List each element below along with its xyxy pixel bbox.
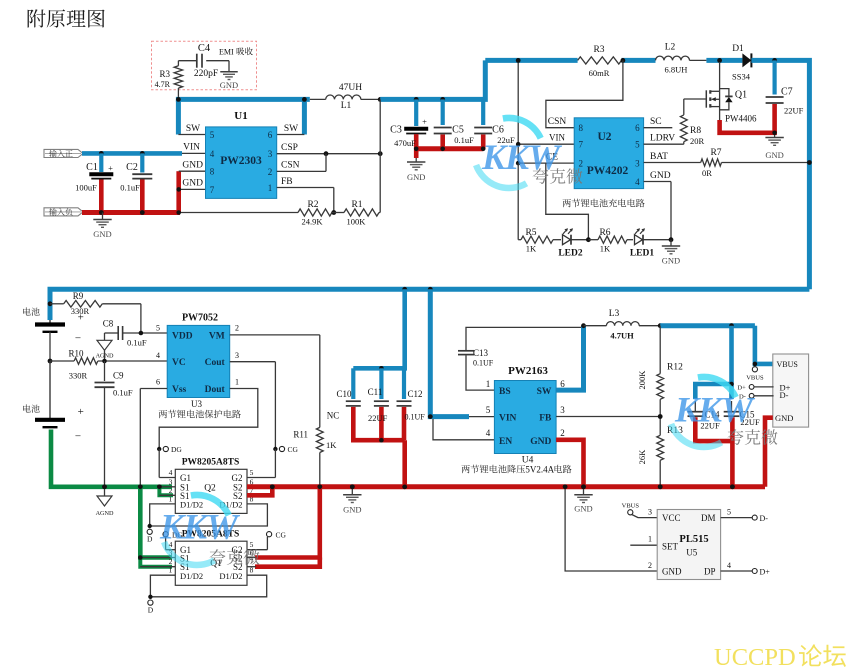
svg-text:−: −: [75, 431, 81, 443]
svg-text:R1: R1: [351, 200, 362, 210]
wire U5 GND: [565, 487, 657, 571]
svg-text:C7: C7: [781, 87, 793, 98]
ground main GND: [350, 484, 355, 489]
svg-text:5: 5: [727, 508, 731, 517]
svg-text:FB: FB: [539, 414, 552, 424]
wire CSN: [277, 170, 326, 172]
capacitor C9 0.1uF: [104, 361, 106, 381]
svg-text:1: 1: [268, 183, 273, 193]
svg-text:6: 6: [268, 130, 273, 140]
resistor R11 1K: [316, 427, 323, 452]
svg-text:SS34: SS34: [732, 72, 751, 82]
node R11 bus: [317, 484, 322, 489]
svg-text:220pF: 220pF: [194, 69, 218, 79]
svg-text:PW2163: PW2163: [508, 365, 548, 377]
svg-text:CSN: CSN: [548, 117, 567, 127]
node VIN-C2: [140, 151, 145, 156]
ground input: [102, 213, 104, 220]
wire U2 LDRV: [644, 143, 684, 145]
svg-text:47UH: 47UH: [339, 83, 362, 93]
svg-text:VBUS: VBUS: [622, 503, 640, 510]
svg-text:R2: R2: [307, 200, 318, 210]
node DG: [157, 447, 161, 451]
battery BT1: [49, 320, 51, 324]
wire green to Q1: [140, 487, 172, 558]
wire green to Q2 S1b: [159, 487, 173, 496]
node Q1 CG: [267, 532, 272, 537]
wire Q2 D loop: [150, 504, 268, 526]
wire DG to Q2 G1: [158, 449, 160, 478]
wire U5 VCC: [632, 515, 657, 518]
svg-text:VCC: VCC: [662, 513, 681, 523]
ground AGND1: [104, 333, 106, 340]
chip U5 PL515: [657, 510, 720, 580]
wire L2-D1 blue: [706, 58, 742, 63]
wire U4 FB: [556, 416, 660, 418]
svg-text:1K: 1K: [526, 244, 537, 254]
svg-text:3: 3: [648, 508, 652, 517]
svg-text:Cout: Cout: [205, 358, 226, 368]
inductor L1 47UH: [310, 98, 326, 100]
svg-text:C8: C8: [103, 319, 114, 329]
connector 输入负: [44, 208, 83, 216]
svg-text:+: +: [108, 163, 113, 173]
wire Q2 S2a red: [247, 484, 765, 489]
svg-text:PW4202: PW4202: [587, 165, 629, 177]
resistor R9 330R: [50, 303, 64, 305]
svg-text:GND: GND: [182, 179, 203, 189]
node C12 bus: [402, 484, 407, 489]
svg-text:3: 3: [268, 149, 273, 159]
node battery+ R9: [48, 301, 53, 306]
wire input negative red bus: [82, 210, 180, 215]
svg-text:C1: C1: [86, 162, 98, 173]
svg-text:VDD: VDD: [172, 332, 193, 342]
svg-text:D1: D1: [732, 44, 744, 54]
wire SW right vertical: [302, 99, 307, 134]
wire L1 to C6 blue bus: [380, 60, 485, 99]
svg-text:R9: R9: [73, 291, 84, 301]
wire U4 SW blue: [556, 326, 583, 390]
svg-text:D-: D-: [780, 390, 789, 400]
svg-text:FB: FB: [281, 177, 293, 187]
wire FB: [277, 187, 334, 189]
resistor R3 4.7R: [177, 61, 179, 66]
svg-text:8: 8: [210, 167, 215, 177]
svg-text:C13: C13: [473, 348, 489, 358]
capacitor C8 0.1uF: [105, 332, 119, 334]
svg-text:D+: D+: [760, 568, 771, 577]
svg-text:C3: C3: [390, 125, 402, 136]
svg-text:GND: GND: [407, 172, 425, 182]
node R9-VDD: [139, 331, 144, 336]
svg-text:GND: GND: [343, 505, 361, 515]
node VBUS testpoint: [752, 367, 757, 372]
capacitor C12 0.1UF: [402, 368, 406, 399]
svg-text:GND: GND: [775, 413, 793, 423]
svg-text:GND: GND: [182, 161, 203, 171]
svg-text:4.7R: 4.7R: [155, 80, 171, 89]
svg-text:6.8UH: 6.8UH: [665, 65, 688, 75]
wire U2 SC stub: [644, 127, 673, 129]
node C5 top: [440, 97, 445, 102]
svg-text:4.7UH: 4.7UH: [610, 331, 634, 341]
resistor R8 20R: [683, 99, 685, 115]
wire top bus to R3sense: [485, 58, 577, 63]
svg-text:L1: L1: [341, 101, 352, 111]
wire U4 GND red: [556, 440, 583, 487]
svg-text:PW7052: PW7052: [182, 313, 218, 324]
svg-text:4: 4: [727, 561, 731, 570]
transistor Q1 PW4406: [684, 98, 706, 100]
svg-text:L3: L3: [609, 309, 620, 319]
svg-text:R12: R12: [667, 363, 683, 373]
ground AGND2: [104, 487, 106, 496]
svg-text:BAT: BAT: [650, 152, 668, 162]
svg-text:1K: 1K: [600, 244, 611, 254]
node Q1 drain tap: [717, 58, 722, 63]
svg-text:0R: 0R: [702, 168, 712, 178]
svg-text:2: 2: [560, 428, 565, 438]
wire U5 SET stub: [630, 544, 657, 546]
svg-text:C4: C4: [198, 43, 211, 54]
svg-text:GND: GND: [220, 80, 238, 90]
svg-text:2: 2: [268, 167, 273, 177]
node L3 out: [658, 323, 663, 328]
wire Q1 D loop: [150, 575, 266, 597]
wire D1 to battery rail: [751, 60, 809, 289]
wire U5 DM: [721, 517, 753, 519]
svg-text:CSN: CSN: [281, 161, 300, 171]
wire U2 GND pin4: [644, 181, 671, 183]
wire R3-L2 blue: [622, 58, 656, 63]
svg-text:R7: R7: [710, 148, 721, 158]
svg-text:EMI: EMI: [219, 48, 234, 57]
svg-text:C6: C6: [492, 125, 504, 136]
node U5 gnd tap: [563, 485, 568, 490]
wire U2 BAT R7: [644, 162, 701, 164]
svg-text:2: 2: [579, 159, 584, 169]
svg-text:DG: DG: [171, 445, 182, 454]
wire green battery negative: [51, 430, 172, 487]
node Q1 DG: [163, 532, 168, 537]
svg-text:PW4406: PW4406: [725, 114, 757, 124]
chip U2 PW4202: [574, 118, 643, 189]
svg-text:6: 6: [560, 379, 565, 389]
svg-text:D: D: [147, 535, 153, 544]
svg-text:2: 2: [648, 561, 652, 570]
node C1 gnd: [99, 210, 104, 215]
svg-text:Q2: Q2: [204, 484, 216, 494]
svg-text:100K: 100K: [347, 217, 367, 227]
svg-text:SW: SW: [537, 387, 552, 397]
svg-text:VIN: VIN: [183, 143, 200, 153]
ground под C4: [228, 61, 230, 72]
svg-text:SET: SET: [662, 542, 679, 552]
svg-text:KKW: KKW: [481, 137, 563, 177]
svg-text:Dout: Dout: [205, 385, 226, 395]
bus junction dots: [270, 485, 275, 490]
svg-text:C11: C11: [368, 387, 383, 397]
svg-text:5: 5: [156, 324, 160, 333]
capacitor C13 0.1UF: [466, 356, 494, 391]
svg-text:LDRV: LDRV: [650, 134, 675, 144]
node L1 output: [378, 97, 383, 102]
wire SW top bus: [178, 99, 309, 102]
svg-text:5V2.4A: 5V2.4A: [525, 465, 554, 475]
inductor L3 4.7UH: [584, 325, 607, 327]
svg-text:5: 5: [250, 468, 254, 477]
wire blue C10 bus: [353, 289, 404, 368]
svg-text:2: 2: [235, 324, 239, 333]
caption 两节锂电池充电电路: [563, 199, 645, 208]
svg-text:EN: EN: [499, 437, 512, 447]
svg-text:4: 4: [169, 468, 173, 477]
node D Q2: [148, 524, 152, 528]
svg-text:330R: 330R: [71, 306, 90, 316]
svg-text:PW8205A8TS: PW8205A8TS: [182, 458, 240, 468]
svg-text:D-: D-: [760, 514, 769, 523]
wire U1 GND red: [176, 171, 181, 212]
svg-text:0.1uF: 0.1uF: [120, 183, 140, 193]
capacitor C6 22uF: [481, 99, 485, 125]
node VBAT-VIN tap: [428, 287, 433, 292]
wire U3 Dout to DG: [159, 389, 258, 450]
svg-text:330R: 330R: [69, 371, 88, 381]
svg-text:4: 4: [635, 177, 640, 187]
wire blue to VBUS pin: [755, 326, 774, 364]
wire U2 CSN: [546, 60, 623, 127]
svg-text:22UF: 22UF: [368, 413, 388, 423]
svg-text:C10: C10: [336, 389, 352, 399]
svg-text:6: 6: [156, 378, 160, 387]
svg-text:0.1UF: 0.1UF: [405, 413, 426, 422]
svg-text:D1/D2: D1/D2: [219, 571, 242, 581]
svg-text:4: 4: [486, 428, 491, 438]
svg-text:CG: CG: [288, 445, 299, 454]
svg-text:PW2303: PW2303: [220, 155, 262, 167]
svg-text:GND: GND: [662, 256, 680, 266]
svg-text:4: 4: [156, 351, 160, 360]
wire U3 Vss: [140, 388, 167, 390]
svg-text:LED2: LED2: [558, 249, 583, 259]
node C7 tap: [772, 58, 777, 63]
wire U2 CE: [518, 162, 574, 164]
node C15 tap: [729, 323, 734, 328]
capacitor C11 22UF: [379, 366, 384, 371]
svg-text:26K: 26K: [637, 449, 647, 465]
battery BT2: [49, 361, 51, 419]
resistor R2 24.9K: [298, 209, 332, 216]
svg-text:SW: SW: [284, 124, 298, 134]
title 附原理图: [28, 9, 105, 27]
svg-text:VM: VM: [209, 332, 225, 342]
svg-text:−: −: [75, 333, 81, 345]
svg-text:PL515: PL515: [679, 534, 708, 545]
svg-text:U5: U5: [686, 548, 697, 558]
svg-text:200K: 200K: [637, 370, 647, 390]
node AGND1-VC: [102, 359, 107, 364]
svg-text:UCCPD: UCCPD: [714, 644, 796, 671]
wire Q2 S1a stub: [159, 486, 175, 488]
svg-text:SW: SW: [186, 124, 200, 134]
chip U1 PW2303: [206, 127, 277, 198]
svg-text:U3: U3: [191, 399, 202, 409]
node SW-R3 junction: [176, 97, 181, 102]
svg-text:VBUS: VBUS: [777, 360, 798, 369]
wire VIN U4 blue: [430, 289, 469, 416]
wire U3 VM to R11: [230, 334, 320, 336]
svg-text:Vss: Vss: [172, 385, 187, 395]
capacitor C7 22UF: [772, 60, 776, 94]
node CSN tap: [621, 58, 626, 63]
wire Q1 source red: [720, 120, 777, 133]
wire CSP-R1 vertical: [379, 99, 381, 212]
svg-text:GND: GND: [662, 567, 682, 577]
svg-text:1: 1: [169, 565, 173, 574]
svg-text:4: 4: [210, 149, 215, 159]
node mid battery: [48, 359, 53, 364]
wire L3 to VBUS blue: [660, 323, 755, 328]
wire CSP: [277, 153, 381, 155]
capacitor C2 0.1uF: [140, 153, 144, 172]
svg-text:R8: R8: [690, 126, 701, 136]
wire U2 VIN vertical: [517, 60, 519, 163]
LED1: [635, 235, 643, 245]
caption 两节锂电池保护电路: [159, 410, 241, 419]
svg-text:0.1uF: 0.1uF: [113, 388, 133, 398]
node green Vss: [138, 484, 143, 489]
node VIN-C1: [99, 151, 104, 156]
wire Q2 S2b red: [247, 487, 272, 496]
svg-text:U2: U2: [597, 131, 611, 143]
node VBAT-C10 tap: [402, 287, 407, 292]
svg-text:LED1: LED1: [630, 249, 655, 259]
svg-text:22UF: 22UF: [784, 106, 804, 116]
wire SW left vertical: [176, 99, 181, 134]
capacitor C5 0.1uF: [441, 99, 445, 125]
svg-text:8: 8: [250, 565, 254, 574]
wire C3-C6 red bus: [416, 146, 483, 151]
svg-text:KKW: KKW: [674, 390, 756, 430]
capacitor C3 470uF: [414, 99, 418, 126]
svg-text:5: 5: [210, 130, 215, 140]
svg-text:100uF: 100uF: [75, 183, 97, 193]
svg-text:D1/D2: D1/D2: [180, 571, 203, 581]
svg-text:GND: GND: [530, 437, 551, 447]
svg-text:U1: U1: [234, 110, 247, 122]
svg-text:+: +: [422, 117, 427, 127]
node C3 top: [414, 97, 419, 102]
svg-text:CSP: CSP: [281, 143, 298, 153]
watermark KKW top: [503, 118, 541, 138]
wire battery top rail: [50, 289, 809, 320]
wire CG to Q2 G2: [274, 449, 276, 478]
svg-text:R3: R3: [593, 45, 604, 55]
svg-text:1: 1: [486, 379, 491, 389]
resistor R6 1K: [588, 239, 598, 241]
svg-text:KKW: KKW: [159, 507, 241, 547]
connector VBUS box: [773, 354, 809, 427]
svg-text:GND: GND: [93, 229, 111, 239]
svg-text:R5: R5: [525, 228, 536, 238]
svg-text:3: 3: [635, 159, 640, 169]
wire U5 DP: [721, 570, 753, 572]
capacitor C1 100uF: [99, 153, 103, 172]
svg-text:DP: DP: [704, 567, 716, 577]
svg-text:0.1uF: 0.1uF: [127, 338, 147, 348]
node C2 gnd: [140, 210, 145, 215]
svg-text:1: 1: [235, 378, 239, 387]
svg-text:D: D: [148, 606, 154, 615]
svg-text:8: 8: [579, 123, 584, 133]
svg-text:0.1uF: 0.1uF: [454, 135, 474, 145]
svg-text:5: 5: [486, 405, 491, 415]
wire Q1 G1: [165, 537, 167, 550]
wire red C10-C12 down: [402, 440, 407, 487]
wire EN link: [433, 419, 494, 440]
node green C9: [102, 484, 107, 489]
capacitor C14 22UF: [694, 401, 696, 412]
resistor R10 330R: [50, 360, 74, 362]
svg-text:3: 3: [235, 351, 239, 360]
connector 输入正: [44, 149, 83, 157]
capacitor C15 22UF: [731, 401, 733, 412]
svg-text:R11: R11: [293, 430, 308, 440]
svg-text:1K: 1K: [326, 440, 337, 450]
svg-text:VIN: VIN: [499, 414, 517, 424]
svg-text:C2: C2: [126, 162, 138, 173]
node R13 bus: [658, 484, 663, 489]
svg-text:7: 7: [579, 140, 584, 150]
node LED2-R6: [586, 237, 591, 242]
wire VBUS GND red: [765, 418, 773, 487]
svg-text:5: 5: [635, 140, 640, 150]
svg-text:VC: VC: [172, 358, 186, 368]
node D Q1: [148, 595, 152, 599]
svg-text:24.9K: 24.9K: [301, 217, 323, 227]
caption U4 两节锂电池降压5V2.4A电路: [461, 465, 525, 474]
svg-text:BS: BS: [499, 387, 511, 397]
svg-text:R10: R10: [68, 349, 84, 359]
resistor R5 1K: [518, 239, 521, 241]
ground LED1: [670, 240, 672, 246]
ground C3: [415, 158, 417, 162]
LED2: [563, 235, 571, 245]
svg-text:VBUS: VBUS: [746, 375, 764, 382]
wire U3 Cout to CG: [230, 361, 276, 363]
svg-text:NC: NC: [327, 411, 340, 421]
ground U4 GND: [583, 487, 585, 495]
wire red to Q1 S2: [255, 487, 320, 558]
wire R12 chain: [659, 326, 661, 374]
svg-text:0.1UF: 0.1UF: [473, 359, 494, 368]
ground C7: [774, 133, 776, 138]
svg-text:60mR: 60mR: [589, 68, 610, 78]
svg-text:C9: C9: [113, 371, 124, 381]
svg-text:DM: DM: [701, 513, 716, 523]
wire CHRG L-link: [546, 163, 589, 240]
wire VIN blue: [82, 151, 182, 156]
wire C14 C15 blue: [729, 326, 734, 399]
svg-text:R6: R6: [599, 228, 610, 238]
node green S1 branch: [157, 484, 162, 489]
wire CE drop: [517, 163, 519, 240]
svg-text:C5: C5: [452, 125, 464, 136]
wire C4 top: [178, 60, 196, 62]
svg-text:GND: GND: [574, 504, 592, 514]
svg-text:7: 7: [210, 185, 215, 195]
